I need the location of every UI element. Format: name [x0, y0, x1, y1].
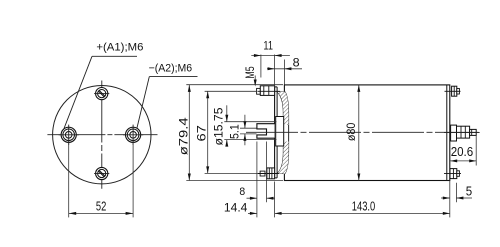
motor end-cap circle — [53, 86, 151, 184]
dimension 080 (body) — [344, 85, 360, 181]
dimension 67 (vertical, between views) — [195, 91, 257, 173]
dimension 20.6 (terminal protrusion) — [450, 135, 476, 165]
bell section with hatching — [277, 92, 288, 174]
top-left mounting stud M5 — [257, 86, 280, 96]
front flange plate — [275, 87, 278, 178]
dimension 11 (top) — [251, 38, 290, 86]
middle terminal stud (right) — [444, 125, 480, 141]
top mounting screw (end view) — [94, 88, 109, 100]
svg-text:11: 11 — [263, 38, 273, 52]
top-right mounting stud — [445, 86, 461, 96]
svg-text:5.1: 5.1 — [230, 124, 242, 139]
svg-text:52: 52 — [96, 200, 106, 214]
label +(A1);M6 with leader — [64, 41, 143, 128]
svg-text:14.4: 14.4 — [224, 203, 248, 215]
bottom mounting screw (end view) — [94, 167, 109, 179]
svg-text:ø15.75: ø15.75 — [214, 108, 226, 146]
svg-text:143.0: 143.0 — [352, 199, 375, 213]
svg-text:5: 5 — [466, 184, 472, 198]
vertical centerline — [101, 81, 103, 189]
label M5 with leader arrow — [245, 66, 257, 86]
svg-text:+(A1);M6: +(A1);M6 — [96, 41, 143, 53]
dimension 079.4 (vertical, between views) — [178, 85, 283, 181]
bearing hub — [276, 117, 284, 147]
terminal A1 (left stud, end view) — [59, 125, 79, 145]
terminal A2 (right stud, end view) — [123, 125, 143, 145]
dimension 143.0 (bottom) — [275, 199, 450, 215]
svg-text:8: 8 — [239, 186, 245, 198]
label -(A2);M6 with leader — [137, 63, 198, 129]
dimension 52 — [69, 143, 133, 218]
end-cap seam line — [446, 85, 448, 181]
svg-text:ø79.4: ø79.4 — [178, 117, 190, 156]
side view centerline — [246, 131, 479, 133]
dimension 5 (right) — [441, 181, 472, 218]
bottom-right mounting stud — [444, 169, 461, 179]
dimension 8 (slot depth, bottom) — [239, 142, 275, 218]
horizontal centerline — [47, 134, 157, 136]
motor body outline — [284, 85, 449, 181]
bottom-left mounting stud — [258, 168, 279, 179]
dimension 8 (top) — [267, 55, 302, 84]
svg-text:−(A2);M6: −(A2);M6 — [149, 63, 193, 75]
shaft with slot — [257, 124, 275, 139]
svg-text:8: 8 — [293, 55, 300, 69]
dimension 14.4 (bottom) — [224, 182, 275, 218]
svg-text:67: 67 — [195, 125, 209, 142]
svg-text:ø80: ø80 — [344, 122, 358, 141]
dimension 5.1 (shaft slot) — [230, 115, 257, 146]
svg-text:20.6: 20.6 — [451, 145, 474, 159]
dimension 015.75 (shaft) — [214, 105, 277, 146]
